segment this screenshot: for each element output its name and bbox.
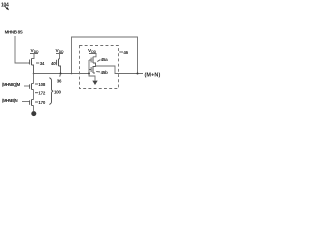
svg-text:(MHNB)N: (MHNB)N bbox=[2, 98, 18, 103]
VDD terminal 3 bar bbox=[89, 53, 97, 55]
wire VDD3 to transistor 45a source bbox=[93, 54, 96, 57]
svg-text:MHNB 8S: MHNB 8S bbox=[5, 30, 23, 35]
svg-text:34: 34 bbox=[40, 61, 45, 66]
wire transistor 170 source to ground bbox=[33, 106, 35, 112]
junction dot gate wire on bus bbox=[88, 73, 90, 75]
svg-text:(MHN8Q)M: (MHN8Q)M bbox=[2, 82, 21, 87]
wire gate lead of transistor 108 bbox=[24, 85, 30, 87]
brace grouping transistors 108/170 bbox=[49, 78, 53, 105]
wire 45b source to ground bbox=[89, 74, 95, 81]
svg-text:(M+N): (M+N) bbox=[145, 73, 161, 79]
ground symbol (down triangle) bbox=[92, 81, 97, 85]
svg-text:45a: 45a bbox=[101, 57, 108, 62]
leader arrow for 104 bbox=[4, 6, 7, 9]
reference numeral 46 leader bbox=[119, 51, 123, 53]
junction dot where box left edge meets bus bbox=[71, 73, 73, 75]
ground blob bbox=[31, 111, 36, 116]
svg-text:VDD: VDD bbox=[56, 48, 65, 54]
junction dot transistor 40 drain bbox=[60, 73, 62, 75]
junction dot at box right edge on output wire bbox=[137, 73, 139, 75]
transistor 108 (NMOS) bbox=[30, 84, 34, 90]
svg-text:170: 170 bbox=[38, 100, 45, 105]
transistor 34 (PMOS) bbox=[28, 59, 34, 74]
gate wire of inverter pair bbox=[88, 60, 90, 74]
wire between transistors 108 and 170 bbox=[33, 90, 35, 100]
wire inverter output bbox=[96, 66, 144, 74]
svg-text:100: 100 bbox=[54, 89, 61, 94]
wire gate lead of transistor 170 bbox=[22, 101, 30, 103]
node wire: output node horizontal bus bbox=[34, 73, 90, 75]
reference numeral 172 leader bbox=[35, 92, 38, 94]
VDD terminal 1 bar bbox=[30, 53, 38, 55]
wire VDD2 to transistor 40 source bbox=[59, 54, 60, 59]
transistor 45b (NMOS) bbox=[89, 66, 96, 73]
svg-text:VDD: VDD bbox=[31, 48, 40, 54]
dashed box 46 bbox=[80, 46, 119, 89]
reference numeral 34 leader bbox=[36, 62, 39, 64]
junction dot at transistor 34 drain bbox=[33, 73, 35, 75]
wire control signal to gate of M1 bbox=[15, 36, 28, 63]
reference numeral 45a leader bbox=[97, 60, 100, 62]
svg-text:46: 46 bbox=[123, 50, 128, 55]
svg-text:36: 36 bbox=[57, 79, 62, 84]
reference numeral 108 leader bbox=[35, 83, 38, 85]
transistor 45a (PMOS) bbox=[89, 57, 96, 66]
reference numeral 170 leader bbox=[35, 101, 38, 103]
wire bus down through transistor chain bbox=[33, 74, 35, 84]
outer solid box (open bottom) bbox=[72, 37, 138, 74]
reference numeral 36 leader tick bbox=[59, 75, 62, 77]
wire VDD1 to transistor 34 source bbox=[32, 54, 35, 59]
transistor 170 (NMOS) bbox=[30, 100, 34, 106]
svg-text:108: 108 bbox=[38, 82, 45, 87]
reference numeral 45b leader bbox=[96, 71, 100, 73]
svg-text:45b: 45b bbox=[101, 70, 108, 75]
svg-text:172: 172 bbox=[38, 91, 45, 96]
VDD terminal 2 bar bbox=[56, 53, 63, 55]
svg-text:40: 40 bbox=[51, 61, 56, 66]
svg-text:VDD: VDD bbox=[88, 48, 97, 54]
transistor 40 (PMOS) bbox=[56, 59, 61, 74]
